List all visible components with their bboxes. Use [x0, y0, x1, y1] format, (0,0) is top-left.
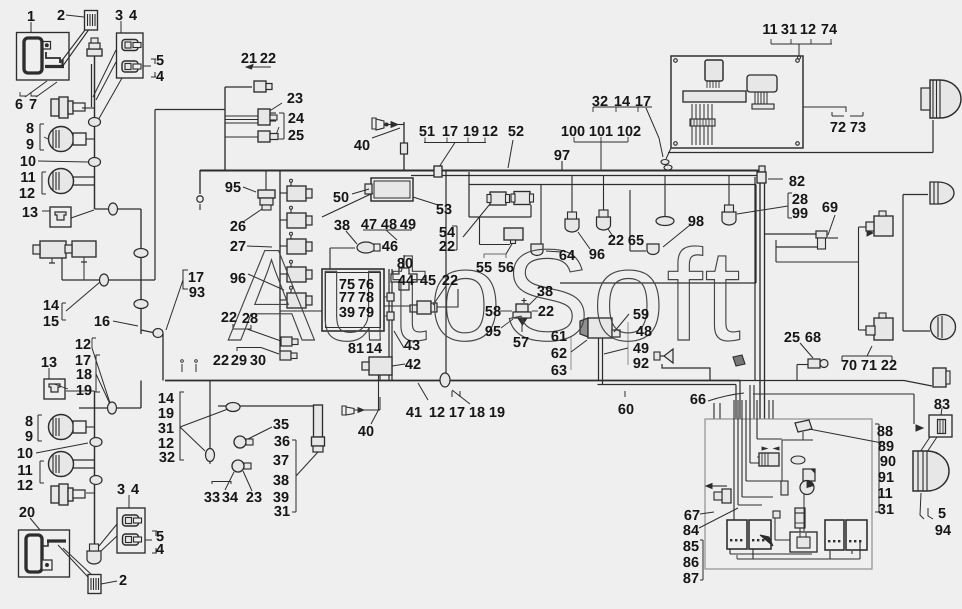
- svg-text:40: 40: [358, 424, 374, 440]
- svg-text:17: 17: [449, 405, 465, 421]
- svg-text:87: 87: [683, 571, 699, 587]
- svg-text:66: 66: [690, 392, 706, 408]
- svg-text:22: 22: [221, 310, 237, 326]
- svg-text:50: 50: [333, 190, 349, 206]
- svg-text:41: 41: [406, 405, 422, 421]
- svg-text:20: 20: [19, 505, 35, 521]
- svg-text:70: 70: [841, 358, 857, 374]
- svg-text:11: 11: [20, 170, 35, 186]
- svg-text:9: 9: [26, 137, 34, 153]
- svg-text:12: 12: [75, 337, 91, 353]
- svg-text:42: 42: [405, 357, 421, 373]
- svg-text:32: 32: [592, 94, 608, 110]
- svg-text:12: 12: [17, 478, 33, 494]
- svg-text:78: 78: [358, 290, 374, 306]
- svg-text:18: 18: [469, 405, 485, 421]
- svg-text:47: 47: [361, 217, 377, 233]
- svg-text:37: 37: [273, 453, 289, 469]
- svg-text:36: 36: [274, 434, 290, 450]
- svg-text:28: 28: [242, 311, 258, 327]
- svg-text:23: 23: [246, 490, 262, 506]
- svg-text:96: 96: [589, 247, 605, 263]
- svg-text:14: 14: [43, 298, 59, 314]
- svg-text:12: 12: [19, 186, 35, 202]
- svg-text:53: 53: [436, 202, 452, 218]
- svg-text:31: 31: [781, 22, 797, 38]
- svg-text:22: 22: [439, 239, 455, 255]
- svg-text:72: 72: [830, 120, 846, 136]
- svg-text:12: 12: [482, 124, 498, 140]
- svg-text:23: 23: [287, 91, 303, 107]
- svg-text:29: 29: [231, 353, 247, 369]
- svg-text:4: 4: [156, 542, 164, 558]
- svg-text:48: 48: [636, 324, 652, 340]
- svg-text:77: 77: [339, 290, 355, 306]
- svg-text:19: 19: [463, 124, 479, 140]
- svg-text:52: 52: [508, 124, 524, 140]
- svg-text:AutoSoft: AutoSoft: [228, 222, 743, 368]
- svg-text:31: 31: [158, 421, 174, 437]
- svg-text:10: 10: [20, 154, 36, 170]
- svg-text:44: 44: [398, 273, 414, 289]
- svg-text:25: 25: [288, 128, 304, 144]
- svg-text:69: 69: [822, 200, 838, 216]
- svg-text:84: 84: [683, 523, 699, 539]
- svg-text:64: 64: [559, 248, 575, 264]
- svg-text:93: 93: [189, 285, 205, 301]
- svg-text:100: 100: [561, 124, 585, 140]
- svg-text:57: 57: [513, 335, 529, 351]
- svg-text:40: 40: [354, 138, 370, 154]
- svg-text:86: 86: [683, 555, 699, 571]
- svg-text:62: 62: [551, 346, 567, 362]
- svg-text:48: 48: [381, 217, 397, 233]
- svg-text:94: 94: [935, 523, 951, 539]
- svg-text:56: 56: [498, 260, 514, 276]
- svg-text:39: 39: [339, 305, 355, 321]
- svg-text:92: 92: [633, 356, 649, 372]
- svg-text:82: 82: [789, 174, 805, 190]
- svg-text:14: 14: [366, 341, 382, 357]
- svg-text:81: 81: [348, 341, 364, 357]
- svg-text:19: 19: [489, 405, 505, 421]
- svg-text:2: 2: [57, 8, 65, 24]
- svg-text:8: 8: [25, 414, 33, 430]
- svg-text:27: 27: [230, 239, 246, 255]
- svg-text:22: 22: [881, 358, 897, 374]
- svg-text:80: 80: [397, 256, 413, 272]
- svg-text:95: 95: [225, 180, 241, 196]
- svg-text:5: 5: [938, 506, 946, 522]
- svg-text:89: 89: [878, 439, 894, 455]
- svg-text:34: 34: [222, 490, 238, 506]
- svg-text:19: 19: [76, 383, 92, 399]
- svg-text:11: 11: [17, 463, 32, 479]
- svg-text:85: 85: [683, 539, 699, 555]
- svg-text:43: 43: [404, 338, 420, 354]
- svg-text:73: 73: [850, 120, 866, 136]
- svg-text:17: 17: [635, 94, 651, 110]
- svg-text:24: 24: [288, 111, 304, 127]
- svg-text:12: 12: [800, 22, 816, 38]
- svg-text:4: 4: [131, 482, 139, 498]
- svg-text:90: 90: [880, 454, 896, 470]
- svg-text:32: 32: [159, 450, 175, 466]
- svg-text:60: 60: [618, 402, 634, 418]
- svg-text:79: 79: [358, 305, 374, 321]
- svg-text:99: 99: [792, 206, 808, 222]
- svg-text:11: 11: [877, 486, 892, 502]
- svg-text:38: 38: [273, 473, 289, 489]
- svg-text:9: 9: [25, 429, 33, 445]
- svg-text:7: 7: [29, 97, 37, 113]
- svg-text:2: 2: [119, 573, 127, 589]
- svg-text:5: 5: [156, 53, 164, 69]
- svg-text:95: 95: [485, 324, 501, 340]
- svg-text:97: 97: [554, 148, 570, 164]
- svg-text:58: 58: [485, 304, 501, 320]
- svg-text:13: 13: [22, 205, 38, 221]
- svg-text:15: 15: [43, 314, 59, 330]
- svg-text:12: 12: [429, 405, 445, 421]
- svg-text:31: 31: [274, 504, 290, 520]
- svg-text:13: 13: [41, 355, 57, 371]
- svg-text:22: 22: [213, 353, 229, 369]
- svg-text:25: 25: [784, 330, 800, 346]
- svg-text:17: 17: [188, 270, 204, 286]
- svg-text:63: 63: [551, 363, 567, 379]
- svg-text:38: 38: [537, 284, 553, 300]
- svg-text:22: 22: [260, 51, 276, 67]
- svg-text:30: 30: [250, 353, 266, 369]
- svg-text:55: 55: [476, 260, 492, 276]
- svg-text:4: 4: [129, 8, 137, 24]
- svg-text:65: 65: [628, 233, 644, 249]
- svg-text:67: 67: [684, 508, 700, 524]
- svg-text:1: 1: [27, 9, 35, 25]
- svg-text:22: 22: [538, 304, 554, 320]
- svg-text:96: 96: [230, 271, 246, 287]
- svg-text:31: 31: [878, 502, 894, 518]
- svg-text:35: 35: [273, 417, 289, 433]
- svg-text:17: 17: [442, 124, 458, 140]
- svg-text:46: 46: [382, 239, 398, 255]
- svg-text:10: 10: [17, 446, 33, 462]
- svg-text:83: 83: [934, 397, 950, 413]
- svg-text:8: 8: [26, 121, 34, 137]
- svg-text:26: 26: [230, 219, 246, 235]
- svg-text:74: 74: [821, 22, 837, 38]
- svg-text:68: 68: [805, 330, 821, 346]
- svg-text:19: 19: [158, 406, 174, 422]
- svg-text:33: 33: [204, 490, 220, 506]
- svg-text:6: 6: [15, 97, 23, 113]
- svg-text:45: 45: [420, 273, 436, 289]
- svg-text:18: 18: [76, 367, 92, 383]
- svg-text:98: 98: [688, 214, 704, 230]
- svg-text:22: 22: [442, 273, 458, 289]
- svg-text:16: 16: [94, 314, 110, 330]
- svg-text:4: 4: [156, 69, 164, 85]
- svg-text:51: 51: [419, 124, 435, 140]
- svg-text:102: 102: [617, 124, 641, 140]
- svg-text:38: 38: [334, 218, 350, 234]
- svg-text:14: 14: [158, 391, 174, 407]
- svg-text:59: 59: [633, 307, 649, 323]
- svg-text:49: 49: [400, 217, 416, 233]
- svg-text:3: 3: [117, 482, 125, 498]
- svg-text:21: 21: [241, 51, 257, 67]
- svg-text:101: 101: [589, 124, 613, 140]
- svg-text:61: 61: [551, 329, 567, 345]
- svg-text:14: 14: [614, 94, 630, 110]
- svg-text:88: 88: [877, 424, 893, 440]
- svg-text:49: 49: [633, 341, 649, 357]
- svg-text:3: 3: [115, 8, 123, 24]
- svg-text:22: 22: [608, 233, 624, 249]
- svg-text:11: 11: [762, 22, 777, 38]
- svg-text:71: 71: [861, 358, 877, 374]
- svg-text:91: 91: [878, 470, 894, 486]
